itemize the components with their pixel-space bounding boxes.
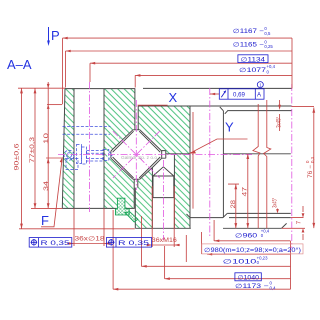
dim line 36xM16 <box>146 244 180 246</box>
seal groove whiteout <box>117 198 125 208</box>
inner ring top face <box>65 87 292 89</box>
dim 77 <box>34 88 36 208</box>
dim d1010 <box>142 216 291 267</box>
d1040 boxed <box>235 273 261 281</box>
svg-text:90±0,6: 90±0,6 <box>15 143 21 171</box>
seal <box>116 198 138 222</box>
svg-text:∅980(m=10;z=98;x=0;a=20°): ∅980(m=10;z=98;x=0;a=20°) <box>204 247 301 254</box>
svg-text:∅960: ∅960 <box>235 232 258 239</box>
svg-text:Y: Y <box>225 120 234 135</box>
svg-text:∅1077: ∅1077 <box>239 67 267 74</box>
roller diagonals <box>113 131 160 178</box>
dim 3x45 top right <box>279 100 281 131</box>
F leader <box>41 160 62 227</box>
d980 gear text <box>202 244 303 254</box>
svg-text:3x45°: 3x45° <box>273 197 279 207</box>
nipple axis ext <box>46 157 62 159</box>
step ext left <box>47 104 62 106</box>
dim 3x45 bottom right <box>277 209 279 213</box>
svg-text:47: 47 <box>242 186 248 196</box>
outer ring split seam at axis plane <box>166 153 291 155</box>
hatch zones <box>62 89 190 229</box>
Y leader <box>190 139 248 154</box>
svg-text:76 −: 76 − <box>308 164 314 178</box>
bottom dims right connector <box>290 241 292 289</box>
outer ring top face <box>138 105 291 107</box>
dim 10 outside arrows <box>47 82 49 208</box>
right FCF box R 0,35 <box>106 238 151 248</box>
plug <box>153 167 174 198</box>
bottom face exts left <box>19 208 135 228</box>
grease nipple hidden <box>64 145 113 170</box>
svg-text:36xM16: 36xM16 <box>152 238 178 244</box>
centerline roller horizontal <box>58 154 252 156</box>
FCF leader <box>210 93 219 95</box>
dim 28 <box>228 184 239 228</box>
chamfer line top right <box>225 110 292 114</box>
inner ring left tapered edge <box>62 89 65 209</box>
dim d1167 <box>63 38 293 104</box>
svg-text:0,4: 0,4 <box>270 285 277 290</box>
svg-text:F: F <box>41 213 49 228</box>
svg-text:∅1040: ∅1040 <box>238 275 260 282</box>
dim 34 <box>47 158 50 163</box>
centerline d18 hole axis <box>89 82 91 212</box>
svg-text:0,3: 0,3 <box>310 156 315 163</box>
svg-text:3x45°: 3x45° <box>277 116 283 127</box>
svg-text:X: X <box>169 90 178 105</box>
outer ring bottom half left of plug hole <box>135 168 152 229</box>
dim d1077 <box>135 75 292 87</box>
outer ring top half <box>139 106 190 153</box>
inner ring left band <box>62 89 74 209</box>
dim d1173 <box>113 210 290 289</box>
svg-text:Galmor Sp. z o.o.: Galmor Sp. z o.o. <box>121 155 158 161</box>
svg-text:P: P <box>51 28 60 43</box>
top dims right connector <box>291 38 293 88</box>
svg-text:28: 28 <box>231 199 237 208</box>
inner ring bottom face <box>62 207 135 209</box>
ext 36xd18 <box>74 208 104 246</box>
raceway relief right of roller <box>162 151 166 159</box>
svg-text:10: 10 <box>44 132 50 144</box>
outer ring bottom face <box>135 227 281 229</box>
M16 hole countersink <box>220 107 224 111</box>
svg-text:∅1134: ∅1134 <box>241 56 266 63</box>
X leader <box>138 104 168 106</box>
dim d1165 <box>66 51 293 88</box>
M16 hole walls <box>190 106 223 228</box>
bolt hole d18 walls <box>74 89 104 209</box>
dim d980 <box>186 232 290 262</box>
svg-text:∅1167 −: ∅1167 − <box>233 28 265 35</box>
centerline M16 hole axis <box>209 88 211 238</box>
hidden lines across bolt hole <box>63 127 111 135</box>
dim d960 <box>214 220 290 241</box>
d1134 boxed <box>238 55 268 63</box>
roller inner parallel lines <box>113 131 161 178</box>
dim line 36xd18 <box>67 243 111 245</box>
svg-text:A–A: A–A <box>7 57 32 72</box>
svg-text:R 0,35: R 0,35 <box>118 240 150 247</box>
svg-text:0,5: 0,5 <box>264 31 271 36</box>
outer ring bottom half between plug hole and M16 hole <box>174 154 190 229</box>
svg-text:R 0,35: R 0,35 <box>41 240 71 247</box>
roller diamond outer (raceway) <box>111 130 162 179</box>
dim 7 outside arrows <box>302 206 304 240</box>
svg-text:∅1165 −: ∅1165 − <box>233 41 265 48</box>
dim d1134 <box>90 63 292 82</box>
recess chamfer <box>187 213 228 217</box>
inner ring right band (around roller left) <box>104 89 135 209</box>
ext 36xM16 <box>152 186 174 247</box>
seam below roller <box>134 179 138 228</box>
svg-text:∅1173 −: ∅1173 − <box>235 283 269 290</box>
dim 76 right <box>292 107 315 229</box>
hole bottom / recess floor <box>190 217 223 219</box>
centerline roller vertical <box>135 100 137 190</box>
top face ext left <box>18 87 65 89</box>
76 tol rotated <box>305 156 315 178</box>
break lines red zigzag <box>253 104 260 228</box>
dim d1040 <box>165 246 291 279</box>
FCF 0,69 A <box>219 89 264 99</box>
outline <box>62 88 291 228</box>
dim 47 <box>247 154 249 229</box>
svg-text:77±0,3: 77±0,3 <box>30 136 36 163</box>
ext line at gear root <box>192 112 194 209</box>
seam above roller <box>135 89 138 130</box>
gear zone lines bottom right <box>227 213 291 217</box>
svg-text:34: 34 <box>44 180 50 191</box>
left FCF box R 0,35 <box>29 238 72 248</box>
P section arrow blue <box>48 27 50 41</box>
svg-text:0,69: 0,69 <box>233 92 245 99</box>
svg-text:∅1010: ∅1010 <box>223 258 258 265</box>
dim 90 <box>21 88 23 229</box>
svg-text:36x∅18: 36x∅18 <box>75 236 106 243</box>
centerline plug axis <box>162 160 164 240</box>
dims <box>18 27 315 291</box>
ext lines 7dim <box>282 218 305 229</box>
bottom right chamfer <box>282 223 287 228</box>
centerline bearing axis <box>291 84 293 248</box>
svg-text:0,25: 0,25 <box>264 44 273 49</box>
circled 1 <box>257 82 263 88</box>
plug hole walls <box>152 155 174 228</box>
